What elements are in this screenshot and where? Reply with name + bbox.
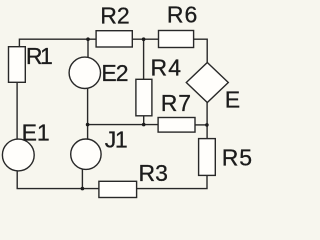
junction dot middle left node: [86, 123, 90, 127]
svg-text:R2: R2: [100, 2, 129, 28]
svg-text:J1: J1: [105, 126, 127, 152]
wire J1 bottom stub: [81, 169, 83, 189]
resistor R4: [136, 79, 152, 116]
junction dot R4 bottom node: [142, 123, 146, 127]
wire top node down to R4: [143, 39, 145, 79]
resistor R5: [199, 139, 216, 176]
svg-text:R7: R7: [161, 90, 192, 116]
junction dot bottom J1 node: [81, 187, 85, 191]
wire R4 bottom stub: [143, 116, 145, 125]
resistor R3: [99, 181, 137, 197]
wire R3 right to bottom-right corner up to R5: [137, 175, 207, 188]
resistor R7: [158, 118, 195, 133]
svg-text:R3: R3: [139, 160, 168, 186]
wire left vertical R1 to E1: [16, 82, 18, 139]
wire R6 to diamond top: [194, 39, 208, 62]
source J1: [71, 139, 101, 169]
svg-text:E2: E2: [101, 60, 127, 86]
junction dot top R4 node: [142, 37, 146, 41]
wire middle horizontal to R7: [88, 124, 159, 126]
wire E2 bottom to J1 top: [87, 88, 89, 139]
resistor R6: [159, 31, 194, 48]
wire top-left corner to R2: [19, 39, 96, 47]
dependent source E (diamond): [186, 63, 228, 103]
wire top node down to E2: [87, 39, 89, 57]
svg-text:R4: R4: [151, 54, 183, 80]
junction dot right node: [205, 123, 209, 127]
wire E1 bottom to corner: [17, 171, 99, 189]
wire R7 right to right node: [195, 124, 207, 126]
source E1: [2, 139, 34, 171]
source E2: [69, 57, 100, 88]
svg-text:E: E: [225, 86, 240, 112]
resistor R1: [9, 47, 26, 83]
svg-text:R1: R1: [26, 43, 52, 69]
svg-text:E1: E1: [22, 119, 50, 145]
svg-text:R5: R5: [222, 145, 253, 171]
wire R2 to R6: [132, 38, 158, 40]
svg-text:R6: R6: [167, 2, 198, 28]
wire diamond bottom to R5: [206, 103, 208, 139]
resistor R2: [96, 31, 132, 47]
junction dot top E2 node: [86, 37, 90, 41]
